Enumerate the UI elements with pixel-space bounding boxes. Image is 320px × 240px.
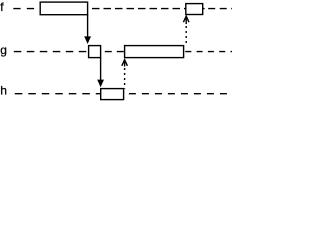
wire g timeline left dashed segment [14, 51, 88, 53]
wire solid call arrow g to h shaft [100, 58, 102, 81]
dotted return arrow g to f open head [183, 16, 189, 22]
node g label [0, 43, 7, 57]
dotted return arrow h to g solid tip [124, 60, 126, 67]
wire solid call arrow f to g shaft [87, 15, 89, 38]
wire h timeline left dashed segment [15, 93, 101, 95]
wire g timeline right dashed segment [185, 51, 232, 53]
dotted return arrow g to f solid tip [185, 16, 187, 24]
dotted return arrow h to g open head [122, 60, 128, 66]
wire g timeline middle dashed segment [105, 51, 125, 53]
svg-text:g: g [0, 43, 7, 57]
box f resume bar [186, 4, 203, 15]
svg-text:h: h [0, 84, 7, 98]
wire f timeline middle dashed segment [92, 8, 185, 10]
wire dotted return arrow g to f shaft [185, 26, 187, 44]
wire f timeline right dashed segment [203, 8, 232, 10]
node f label [0, 0, 4, 14]
box g second evaluation bar [125, 46, 184, 58]
node h label [0, 84, 7, 98]
box f evaluation bar [40, 2, 87, 15]
solid call arrow g to h head [97, 80, 104, 88]
box g first evaluation bar [89, 46, 101, 58]
wire h timeline right dashed segment [129, 93, 232, 95]
wire dotted return arrow h to g shaft [124, 68, 126, 89]
solid call arrow f to g head [84, 36, 91, 44]
wire f timeline left dashed segment [13, 8, 40, 10]
box h evaluation bar [101, 89, 124, 100]
